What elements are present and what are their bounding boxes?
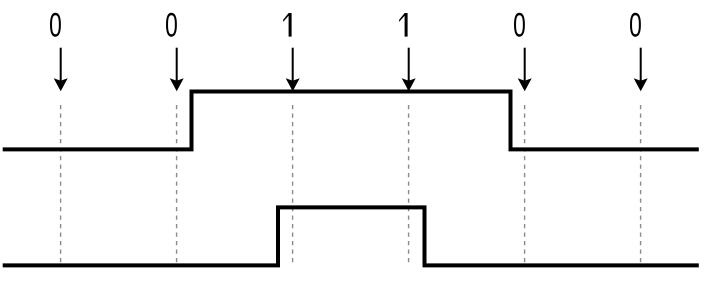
dashed sample line t1 bbox=[60, 105, 62, 265]
dashed sample line t3 bbox=[292, 105, 294, 265]
bit label 0 (t5) bbox=[513, 7, 526, 45]
sample arrow t3 bbox=[286, 48, 300, 91]
bit label 1 (t4) bbox=[399, 13, 408, 37]
waveform B (lower pulse) bbox=[3, 207, 699, 265]
dashed sample line t5 bbox=[524, 105, 526, 265]
sample arrow t5 bbox=[518, 48, 532, 91]
bit label 1 (t3) bbox=[283, 13, 292, 37]
svg-text:0: 0 bbox=[49, 7, 62, 45]
dashed sample line t6 bbox=[640, 105, 642, 265]
sample arrow t2 bbox=[170, 48, 184, 91]
dashed sample line t2 bbox=[176, 105, 178, 265]
bit label 0 (t2) bbox=[165, 7, 178, 45]
dashed sample line t4 bbox=[408, 105, 410, 265]
svg-text:0: 0 bbox=[513, 7, 526, 45]
sample arrow t1 bbox=[54, 48, 68, 91]
sample arrow t6 bbox=[634, 48, 648, 91]
svg-text:0: 0 bbox=[165, 7, 178, 45]
sample arrow t4 bbox=[402, 48, 416, 91]
bit label 0 (t6) bbox=[629, 7, 642, 45]
waveform A (upper signal) bbox=[3, 92, 699, 150]
bit label 0 (t1) bbox=[49, 7, 62, 45]
svg-text:0: 0 bbox=[629, 7, 642, 45]
